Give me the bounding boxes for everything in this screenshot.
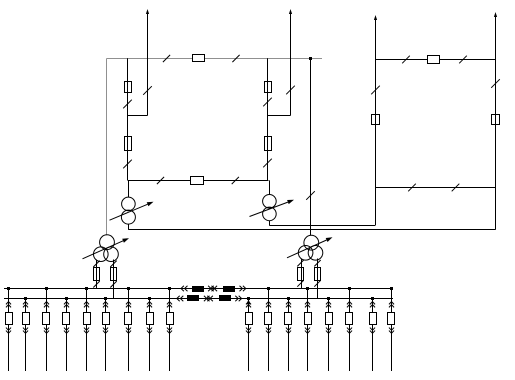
outgoing feeder 10 with drawout fuse switch [248, 298, 250, 371]
wire MV tie bus [128, 180, 269, 182]
wire right-loop right leg [495, 59, 497, 230]
LV busbar 1 [4, 288, 393, 290]
disconnector T3a lower [93, 281, 99, 287]
drawout contacts tie2 middle [204, 296, 207, 301]
outgoing feeder 2 with drawout fuse switch [25, 298, 27, 371]
wire T3 secondary a [96, 260, 98, 289]
drawout contact tie1 left [181, 286, 184, 291]
wire left outer vertical from bus A [106, 58, 108, 235]
outgoing feeder 5 with drawout fuse switch [86, 289, 88, 371]
disconnector on bus A right [232, 55, 239, 62]
circuit breaker on MV tie [191, 177, 204, 185]
wire inner-left branch [127, 58, 129, 180]
bus-tie breaker Q1b [223, 286, 235, 292]
wire T3 secondary b [113, 260, 115, 299]
outgoing feeder 6 with drawout fuse switch [105, 298, 107, 371]
fuse F7 [94, 268, 100, 281]
transformer T4 [304, 235, 319, 250]
wire right-loop left leg [375, 59, 377, 226]
outgoing feeder 8 with drawout fuse switch [149, 298, 151, 371]
outgoing feeder 11 with drawout fuse switch [268, 289, 270, 371]
fuse F4 on inner-right branch [265, 137, 272, 151]
fuse F1 on inner-left branch [125, 82, 132, 93]
outgoing feeder 17 with drawout fuse switch [391, 289, 393, 371]
transformer T2 [263, 195, 277, 209]
wire T4 secondary b [317, 259, 319, 299]
incoming line W1 [147, 11, 149, 116]
fuse F9 [298, 268, 304, 281]
outgoing feeder 3 with drawout fuse switch [46, 289, 48, 371]
disconnector right-loop left [371, 86, 380, 95]
wire HV bus A [107, 58, 322, 60]
wire MV tie to transformer T1 [128, 180, 130, 197]
outgoing feeder 16 with drawout fuse switch [372, 298, 374, 371]
fuse F6 right-loop right leg [492, 115, 500, 125]
wire MV tie to transformer T2 [269, 180, 271, 194]
outgoing feeder 12 with drawout fuse switch [288, 298, 290, 371]
bus-tie breaker Q2b [219, 295, 231, 301]
disconnector T4b lower [314, 280, 320, 286]
outgoing feeder 15 with drawout fuse switch [349, 289, 351, 371]
disconnector right-loop right [491, 79, 500, 88]
fuse F3 on inner-right branch [265, 82, 272, 93]
outgoing feeder 1 with drawout fuse switch [8, 289, 10, 371]
fuse F2 on inner-left branch [125, 137, 132, 151]
wire T2 secondary [269, 221, 271, 226]
wire jog W1 to inner-left branch [128, 115, 148, 117]
junction node bus A to T4 feeder [309, 57, 312, 60]
disconnector on bus A left [163, 55, 170, 62]
outgoing feeder 14 with drawout fuse switch [328, 298, 330, 371]
disconnector T4a upper [297, 260, 303, 266]
fuse F10 [315, 268, 321, 281]
fuse F5 right-loop left leg [372, 115, 380, 125]
disconnector T3b lower [110, 281, 116, 287]
bus-tie breaker Q2a [187, 295, 199, 301]
incoming line W3 [375, 17, 377, 60]
circuit breaker on bus B [428, 56, 440, 64]
outgoing feeder 7 with drawout fuse switch [128, 289, 130, 371]
wire jog W2 to inner-right branch [268, 115, 291, 117]
drawout contact tie2 left [177, 296, 180, 301]
disconnector on T4 supply [306, 191, 315, 200]
disconnector T3a upper [93, 261, 99, 267]
outgoing feeder 13 with drawout fuse switch [307, 289, 309, 371]
disconnector right-loop bottom right [452, 184, 460, 192]
wire HV bus B [375, 59, 495, 61]
disconnector T4b upper [314, 260, 320, 266]
disconnector on W1 [143, 86, 152, 95]
tap-changer arrow T3 [83, 241, 124, 259]
tap-changer arrow T4 [287, 240, 327, 258]
transformer T1 [122, 197, 136, 211]
transformer T3 [100, 235, 115, 250]
drawout contacts tie1 middle [208, 286, 211, 291]
disconnector inner-right upper [263, 98, 272, 107]
disconnector inner-left upper [123, 100, 132, 109]
outgoing feeder 9 with drawout fuse switch [169, 289, 171, 371]
wire bus A down to transformer T4 [310, 58, 312, 235]
wire T4 secondary a [301, 259, 303, 289]
tap-changer arrow T2 [250, 202, 288, 216]
wire link H2 T1 to right-loop [128, 229, 495, 231]
wire right-loop bottom [375, 187, 495, 189]
fuse F8 [111, 268, 117, 281]
wire inner-right branch [267, 58, 269, 180]
disconnector on MV tie right [232, 177, 239, 184]
incoming line W2 [290, 11, 292, 116]
drawout contact tie1 right [240, 286, 243, 291]
wire T1 secondary [128, 224, 130, 230]
LV busbar 2 [4, 298, 393, 300]
disconnector on MV tie left [157, 177, 164, 184]
disconnector on W2 [286, 86, 295, 95]
tap-changer arrow T1 [110, 204, 148, 220]
circuit breaker on bus A [193, 55, 205, 62]
drawout contact tie2 right [235, 296, 238, 301]
bus-tie breaker Q1a [192, 286, 204, 292]
disconnector T4a lower [297, 280, 303, 286]
disconnector inner-left lower [123, 160, 132, 169]
disconnector right-loop bottom left [408, 184, 416, 192]
wire link H1 T2 to right-loop [269, 225, 375, 227]
disconnector on bus B left [402, 56, 410, 64]
incoming line W4 [495, 14, 497, 60]
disconnector on bus B right [459, 56, 467, 64]
outgoing feeder 4 with drawout fuse switch [66, 298, 68, 371]
disconnector T3b upper [110, 261, 116, 267]
disconnector inner-right lower [263, 159, 272, 168]
